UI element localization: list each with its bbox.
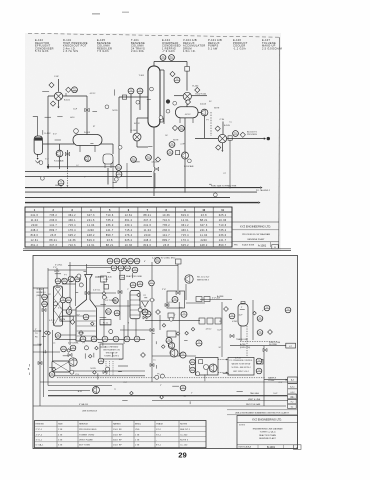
instrument diamonds top: [49, 71, 246, 162]
mid-zone valve: [165, 303, 169, 306]
mid-zone vertical: [178, 302, 180, 356]
wire drop x155: [154, 173, 156, 189]
wire vertical: [69, 262, 71, 345]
wire vertical: [86, 264, 88, 275]
wire horizontal: [152, 400, 288, 402]
exchanger E-201 shell: [54, 286, 63, 326]
small labels bottom: [35, 258, 281, 407]
instrument circles bottom: [42, 258, 291, 391]
pump P-104: [85, 156, 91, 162]
title block top drawing: [232, 207, 279, 249]
pump P-103: [201, 109, 208, 116]
wire tail gas: [48, 394, 287, 396]
wire valve leg: [67, 150, 69, 169]
wire dashed note1: [105, 361, 107, 376]
wire horizontal: [95, 276, 104, 278]
tag box V-7: [286, 343, 296, 348]
diamonds bottom: [70, 298, 272, 358]
small drum P-102 body: [103, 154, 113, 164]
wire fuel gas line: [25, 187, 260, 189]
valves bottom: [38, 290, 267, 373]
wire vertical: [127, 300, 129, 340]
wire vertical: [252, 300, 254, 340]
instrument circles top: [58, 55, 238, 186]
wire horizontal: [95, 305, 130, 307]
wire horizontal: [40, 381, 297, 383]
wire top feed arrow: [33, 344, 40, 346]
wire right drop to valve: [86, 96, 88, 137]
pump bottom 2: [93, 387, 100, 394]
wire neck riser: [87, 279, 89, 300]
circles left of package box: [190, 359, 196, 365]
wire vertical: [135, 319, 137, 339]
mid-zone box small2: [167, 331, 176, 337]
small box top tag: [176, 259, 182, 264]
wire horizontal: [55, 375, 145, 377]
mid-zone line: [145, 319, 200, 321]
small box F-5: [257, 359, 264, 364]
equipment label block E-102: [35, 38, 54, 53]
wire vertical: [240, 321, 242, 341]
control valve 3: [154, 167, 158, 171]
wire dashed inst: [262, 308, 267, 311]
wire horizontal: [48, 390, 90, 392]
wire sample line: [264, 379, 287, 381]
wire vertical: [221, 302, 223, 357]
wire vertical: [123, 325, 125, 344]
pump P-101: [56, 150, 63, 157]
title block bottom drawing: [237, 416, 301, 450]
wire E-104 inlet stub: [174, 95, 183, 97]
top border line: [28, 33, 280, 37]
wire horizontal: [48, 269, 86, 271]
wire horizontal: [61, 315, 76, 317]
drain funnel: [35, 161, 40, 164]
small box left: [60, 316, 73, 321]
mid-zone circles: [145, 297, 202, 359]
package unit box left: [196, 358, 219, 376]
wire long vertical x119: [118, 97, 120, 176]
wire E-104 to drum D-104: [186, 101, 188, 107]
control valve 2: [65, 152, 69, 156]
wire vertical: [39, 288, 41, 406]
off-page connector stack: [288, 384, 298, 400]
funnel F-1: [142, 301, 149, 307]
small box cluster: [176, 151, 180, 155]
wire drum D-103 to pump: [59, 144, 61, 150]
wire drop x127: [126, 163, 128, 189]
wire D-104 legs: [179, 118, 181, 123]
wire reflux vertical x164: [163, 70, 165, 124]
control valve 1: [85, 108, 89, 112]
small box PC-1C: [100, 320, 111, 326]
wire circle drop: [60, 186, 62, 189]
wire vertical: [119, 270, 121, 320]
wire block valve drop: [229, 140, 231, 189]
caption line: [227, 409, 298, 411]
wire vertical: [177, 264, 179, 290]
wire dashed trace: [240, 341, 277, 343]
wire left loop vertical: [47, 96, 49, 169]
wire horizontal: [152, 355, 196, 357]
wire pump P down: [204, 116, 206, 138]
wire pump discharge: [59, 157, 61, 169]
valve below funnel: [143, 316, 147, 319]
wire instrument drop x140: [139, 94, 141, 110]
equipment label block E-106: [233, 38, 248, 50]
wire horizontal: [118, 365, 128, 367]
drum vent circle: [74, 129, 79, 134]
dashed connectors between boxes: [218, 359, 227, 361]
wire vertical: [56, 268, 58, 288]
wire horizontal: [68, 265, 178, 267]
wire vertical: [151, 262, 153, 297]
bottom drawing: engineering line diagram B-1001: [28, 256, 301, 450]
wire vessel to drum: [43, 143, 74, 145]
wire vertical: [159, 315, 161, 330]
misc small fittings and labels (dense scan texture): [37, 87, 283, 404]
wire bottom run 3b: [25, 197, 230, 199]
wire dashed drum: [246, 326, 248, 357]
junction dot: [166, 99, 170, 103]
exchanger E-205: [52, 361, 70, 372]
wire horizontal: [48, 395, 288, 397]
wire horizontal: [33, 287, 48, 289]
wire dashed note3: [112, 361, 114, 376]
wire E-104 outlet stub: [192, 95, 208, 97]
small box fe: [120, 275, 125, 279]
wire vertical: [263, 346, 265, 406]
wire bottom run 4: [25, 202, 258, 204]
pump bottom 1: [69, 358, 77, 366]
equipment label block E-107: [262, 38, 282, 50]
wire cw supply to E-101: [58, 79, 60, 92]
condenser E-104: [183, 92, 191, 100]
wire drum D-104 bottoms: [184, 118, 186, 152]
wire horizontal: [230, 345, 286, 347]
small box row B: [199, 318, 205, 324]
wire vessel V outlet: [37, 155, 39, 158]
equipment label block T-101: [131, 38, 145, 53]
wire E-101 outlet down: [58, 101, 60, 107]
wire horizontal: [87, 267, 121, 269]
feed arrow mid: [33, 330, 40, 332]
svg-text:B: B: [28, 369, 30, 371]
wire header y96: [48, 95, 87, 97]
equipment label block E-104: [162, 38, 181, 53]
wire E-105 drain: [221, 143, 223, 150]
wire drop x113: [112, 160, 114, 189]
equipment label block P-101 A/B: [208, 38, 222, 50]
wire overhead to E-104: [186, 71, 188, 91]
wire horizontal: [55, 338, 145, 340]
right border line: [278, 37, 281, 248]
circle below funnel: [142, 309, 148, 315]
wire horizontal: [55, 370, 145, 372]
wire tray feed line: [119, 96, 148, 98]
wire horizontal: [61, 309, 76, 311]
note box: [100, 344, 123, 359]
wire dashed note2: [109, 361, 111, 376]
line list table: [35, 410, 207, 447]
wire vertical: [103, 281, 105, 339]
wire horizontal: [120, 329, 152, 331]
column bottom nozzle: [160, 118, 164, 122]
wire vertical: [47, 268, 49, 386]
wire product run y138: [198, 112, 201, 114]
faint top marks: [92, 13, 100, 15]
vessel V-102 knockout pot: [34, 136, 42, 154]
wire horizontal: [62, 283, 76, 285]
wire instrument drop x131: [130, 94, 132, 133]
svg-text:29: 29: [178, 451, 186, 460]
wire horizontal: [55, 334, 81, 336]
wire vertical: [52, 330, 54, 372]
wire vertical: [151, 303, 153, 382]
wire drop x68 diamonds: [65, 93, 67, 96]
inline boxes: [185, 67, 190, 72]
top drawing: benzene plant process flow diagram A-1001: [23, 33, 291, 250]
drum D-104 reflux drum: [176, 107, 199, 118]
tray column C-101: [130, 291, 140, 319]
wire horizontal: [90, 292, 116, 294]
wire vertical: [185, 284, 187, 300]
wire reboiler bottom: [136, 141, 138, 147]
wire bottom header 2: [25, 170, 152, 172]
drum V-201: [238, 304, 248, 327]
pump P-102: [182, 152, 189, 159]
tag boxes right stack: [288, 394, 297, 399]
wire horizontal: [33, 405, 286, 407]
wire reflux pump dashed: [210, 112, 212, 136]
wire dashed signal: [57, 377, 265, 379]
frame border: [33, 256, 298, 449]
equipment label block D-101: [63, 38, 88, 53]
equipment label block V-104 A/B: [183, 38, 206, 53]
wire bottom run 3: [25, 191, 257, 193]
bottom double border: [23, 248, 291, 250]
reboiler E-106: [133, 133, 141, 141]
mid-zone box small1: [168, 313, 174, 318]
small box row A: [196, 297, 202, 302]
wire vertical: [75, 280, 77, 306]
wire horizontal: [186, 302, 205, 304]
wire reboiler top: [137, 117, 148, 119]
wire bottom header 1: [48, 166, 119, 168]
wire drum right outlet: [99, 143, 113, 145]
wire horizontal: [33, 351, 60, 353]
pump top feed: [185, 275, 193, 283]
wire column overhead: [153, 62, 155, 67]
stream data table: [25, 207, 232, 247]
column T-101: [148, 66, 160, 127]
cooler E-105: [218, 134, 226, 142]
funnel column C-2: [76, 275, 97, 342]
notes text box: [228, 358, 254, 376]
wire horizontal: [48, 385, 112, 387]
wire column bottoms: [153, 127, 155, 167]
wire horizontal: [55, 361, 68, 363]
wire dashed drop: [66, 168, 68, 185]
condenser E-101: [54, 92, 62, 100]
small boxes near funnel top: [101, 276, 107, 282]
wire feed L-pipe: [33, 116, 38, 118]
mid-zone box large: [167, 291, 185, 308]
wire vertical: [42, 288, 44, 397]
wire small drum outlet: [107, 168, 109, 185]
wire cw to E-105: [222, 122, 224, 135]
wire horizontal: [100, 324, 111, 326]
wire horizontal: [200, 299, 232, 301]
tag box sample: [288, 377, 298, 384]
equipment label block E-105: [97, 38, 112, 53]
drum D-103: [73, 135, 102, 146]
wire bottom header 2b: [25, 176, 152, 178]
